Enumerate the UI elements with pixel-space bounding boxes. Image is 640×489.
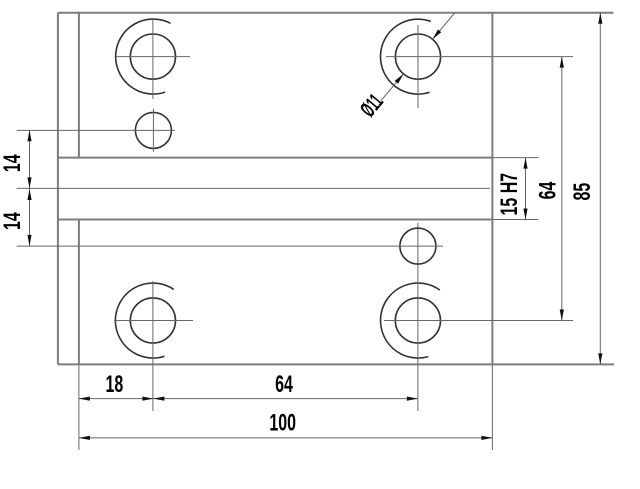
hole BR: horizontal centerline extended right for 64 dim (384, 320, 573, 322)
svg-text:18: 18 (106, 372, 124, 398)
small hole lower-right: horizontal centerline extended left for 14 dim (17, 245, 443, 247)
dim 64 (bottom) line (153, 398, 418, 400)
dim 85 line (599, 13, 601, 365)
dim 14 (upper) arrows (27, 130, 31, 141)
slot centerline (17, 187, 490, 189)
small hole upper-left: horizontal centerline extended left for 14 dim (17, 129, 175, 131)
dim dia11 upper arrow (points down-left at circle) (433, 30, 442, 40)
hole BR: vertical centerline (shared with small hole, extended down) (417, 223, 419, 411)
dim dia11 leader upper segment (433, 13, 455, 39)
svg-text:14: 14 (0, 154, 26, 172)
dim dia11 lower arrow (points up-right at circle) (395, 74, 404, 84)
dim 14 (upper) line (29, 130, 31, 188)
dim 100 line (79, 437, 493, 439)
dim 18 line (79, 398, 153, 400)
dim 85 arrows (598, 13, 602, 24)
hole TR: vertical centerline (417, 25, 419, 108)
svg-text:100: 100 (269, 410, 296, 436)
hole BL: horizontal centerline (114, 320, 193, 322)
hole TR: horizontal centerline extended right for 64 dim (386, 56, 573, 58)
dim 18 arrows (79, 397, 90, 401)
hole TR: spotface arc (380, 19, 430, 94)
hole TR: bore circle (395, 34, 440, 79)
svg-text:14: 14 (0, 212, 26, 230)
part outline: inner left vertical below slot (78, 220, 80, 365)
part outline: bottom edge (with extension to 85-dim) (58, 363, 614, 365)
part outline: right edge (491, 13, 493, 365)
hole TL: horizontal centerline (116, 56, 190, 58)
hole BL: vertical centerline extended down for 18/64 dims (152, 281, 154, 411)
small hole upper-left: vertical centerline (152, 109, 154, 152)
small hole lower-right: circle (400, 228, 436, 264)
slot top edge (with extension right) (58, 157, 493, 159)
small hole upper-left: circle (135, 112, 171, 148)
dim 64 (right) line (561, 57, 563, 321)
svg-text:15 H7: 15 H7 (497, 173, 523, 216)
part outline: top edge (with extension to 85-dim) (58, 12, 614, 14)
dim 14 (lower) line (29, 188, 31, 246)
dim 64 (bottom) arrows (153, 397, 164, 401)
hole TL: bore circle (130, 34, 175, 79)
extension: inner-left vertical below part for 18/100 dims (78, 364, 80, 450)
dim 64 (right) arrows (560, 57, 564, 68)
hole BR: spotface arc (381, 283, 440, 358)
hole TL: spotface arc (116, 19, 171, 94)
dim 15 H7 line (525, 158, 527, 220)
hole TL: vertical centerline (152, 19, 154, 99)
dim 100 arrows (79, 436, 90, 440)
svg-text:64: 64 (275, 372, 293, 398)
dim 14 (lower) arrows (27, 189, 31, 200)
hole BR: bore circle (395, 298, 440, 343)
hole BL: spotface arc (115, 283, 173, 358)
svg-text:85: 85 (570, 183, 596, 201)
slot bottom edge (with extension right) (58, 219, 493, 221)
dim 15 H7 arrows (523, 158, 527, 169)
hole BL: bore circle (130, 298, 175, 343)
extension: right edge below part for 100 dim (491, 364, 493, 450)
part outline: inner left vertical above slot (78, 13, 80, 158)
dim dia11 leader lower segment (381, 74, 404, 101)
part outline: left edge (57, 13, 59, 365)
svg-text:64: 64 (536, 181, 562, 199)
